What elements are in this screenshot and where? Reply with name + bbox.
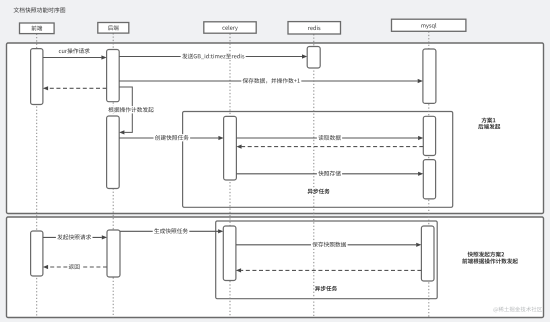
activation mysql (plan2): [421, 226, 434, 281]
label 生成快照任务: [153, 227, 190, 234]
label 前端根据操作计数发起: [462, 258, 518, 263]
label celery: [222, 25, 237, 31]
fragment 异步任务 (plan 1): [183, 112, 453, 208]
label 异步任务 (plan2): [315, 286, 337, 291]
activation mysql B: [423, 160, 435, 199]
label 异步任务 (plan1): [308, 189, 330, 194]
label 保存快照数据: [311, 241, 348, 248]
self-message 根据操作计数发起: [119, 87, 132, 135]
activation 前端 (plan1): [31, 49, 43, 105]
label 后端发起: [478, 124, 500, 129]
label 前端: [31, 26, 42, 31]
message 保存数据，并操作数+1: [119, 79, 423, 83]
return dashed celery: [236, 145, 423, 149]
label 创建快照任务: [154, 134, 191, 141]
label 发起快照请求: [56, 234, 93, 241]
activation 后端 (plan2): [107, 230, 120, 277]
activation redis: [307, 47, 320, 69]
frame 方案1 (backend-initiated): [7, 43, 544, 214]
message cur操作请求: [43, 55, 107, 59]
label 返回: [67, 263, 81, 270]
message 保存快照数据: [236, 243, 421, 247]
label mysql: [421, 23, 436, 29]
activation 后端 #1: [107, 50, 120, 102]
lifeline mysql: [428, 32, 430, 318]
activation celery (plan1): [224, 116, 237, 180]
label 方案1: [481, 117, 495, 122]
message 发起快照请求: [43, 235, 107, 239]
label redis: [308, 26, 320, 31]
label 根据操作计数发起: [107, 106, 155, 113]
label 保存数据，并操作数+1: [241, 77, 301, 84]
lifeline 前端: [36, 34, 38, 318]
message 快照存储: [236, 172, 423, 176]
actor box 前端: [20, 23, 55, 34]
label 读取数据: [317, 134, 342, 141]
actor box redis: [288, 22, 341, 34]
actor box 后端: [98, 23, 129, 34]
actor box celery: [204, 22, 256, 33]
label 快照存储: [317, 170, 342, 177]
activation mysql A: [423, 116, 435, 155]
activation mysql top: [423, 49, 436, 103]
return dashed to celery (plan2): [236, 268, 422, 272]
message 发送GB_id:timez至redis: [119, 54, 307, 58]
message 生成快照任务: [120, 229, 223, 233]
lifeline 后端: [112, 33, 114, 317]
return 返回: [43, 265, 107, 269]
frame 方案2 (frontend-initiated): [7, 217, 544, 318]
activation 后端 #2: [107, 116, 120, 189]
actor box mysql: [392, 19, 466, 31]
lifeline redis: [313, 34, 315, 317]
watermark @稀土掘金技术社区: [493, 307, 542, 313]
activation celery (plan2): [223, 226, 236, 281]
message 读取数据: [236, 136, 423, 140]
label 快照发起方案2: [468, 252, 505, 257]
message 创建快照任务: [119, 136, 223, 140]
label 发送GB_id:timez至redis: [181, 53, 246, 60]
return dashed 前端: [43, 86, 107, 90]
lifeline celery: [229, 34, 231, 318]
fragment 异步任务 (plan 2): [216, 221, 438, 299]
label cur操作请求: [59, 48, 90, 53]
label 后端: [108, 25, 119, 30]
activation 前端 (plan2): [31, 231, 43, 276]
title 文档快照功能时序图: [14, 7, 66, 12]
